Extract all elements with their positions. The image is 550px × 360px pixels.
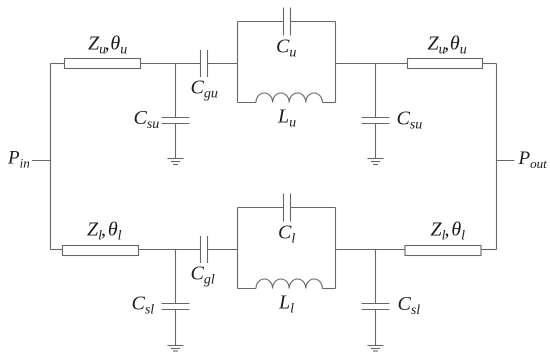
svg-text:Cgu: Cgu — [191, 77, 218, 102]
svg-text:Zl,θl: Zl,θl — [87, 219, 122, 244]
svg-text:Cl: Cl — [278, 222, 295, 247]
svg-text:Zu,θu: Zu,θu — [428, 33, 467, 58]
svg-text:Zl,θl: Zl,θl — [431, 219, 466, 244]
svg-text:Cu: Cu — [276, 36, 296, 61]
svg-text:Csl: Csl — [132, 293, 155, 318]
svg-text:Pout: Pout — [518, 148, 548, 171]
svg-text:Csl: Csl — [398, 293, 421, 318]
svg-text:Zu,θu: Zu,θu — [88, 33, 127, 58]
svg-text:Pin: Pin — [7, 148, 30, 171]
svg-text:Ll: Ll — [278, 292, 294, 317]
svg-text:Cgl: Cgl — [191, 263, 215, 288]
svg-text:Lu: Lu — [277, 106, 296, 131]
svg-text:Csu: Csu — [134, 107, 160, 132]
svg-text:Csu: Csu — [397, 108, 423, 133]
